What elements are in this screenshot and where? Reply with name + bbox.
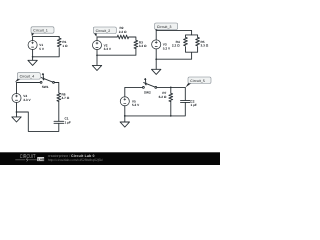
svg-text:1 µF: 1 µF [191, 103, 197, 107]
svg-text:CIRCUIT: CIRCUIT [20, 154, 36, 160]
svg-text:3.3 Ω: 3.3 Ω [139, 44, 147, 48]
svg-text:1 µF: 1 µF [65, 120, 71, 124]
svg-text:2.2 Ω: 2.2 Ω [119, 30, 127, 34]
svg-text:SW1: SW1 [42, 85, 49, 89]
svg-text:Circuit_1: Circuit_1 [33, 29, 48, 33]
svg-text:5.2 V: 5.2 V [132, 103, 140, 107]
svg-text:Circuit_2: Circuit_2 [96, 29, 111, 33]
svg-text:3.3 V: 3.3 V [23, 98, 31, 102]
svg-text:1 Ω: 1 Ω [62, 44, 68, 48]
svg-text:Circuit_4: Circuit_4 [20, 75, 35, 79]
svg-text:3.3 Ω: 3.3 Ω [201, 44, 209, 48]
svg-text:5.2 V: 5.2 V [163, 46, 171, 50]
svg-text:6.2 Ω: 6.2 Ω [159, 95, 167, 99]
svg-text:4.7 Ω: 4.7 Ω [62, 96, 70, 100]
svg-text:3.3 V: 3.3 V [104, 47, 112, 51]
svg-text:2.2 Ω: 2.2 Ω [172, 44, 180, 48]
svg-text:LAB: LAB [38, 157, 45, 161]
svg-text:Circuit_3: Circuit_3 [157, 25, 172, 29]
svg-text:Circuit_5: Circuit_5 [190, 79, 205, 83]
svg-text:SW2: SW2 [144, 90, 151, 94]
svg-text:http://circuitlab.com/c4528bdh: http://circuitlab.com/c4528bdhq62j5k/ [48, 158, 103, 162]
